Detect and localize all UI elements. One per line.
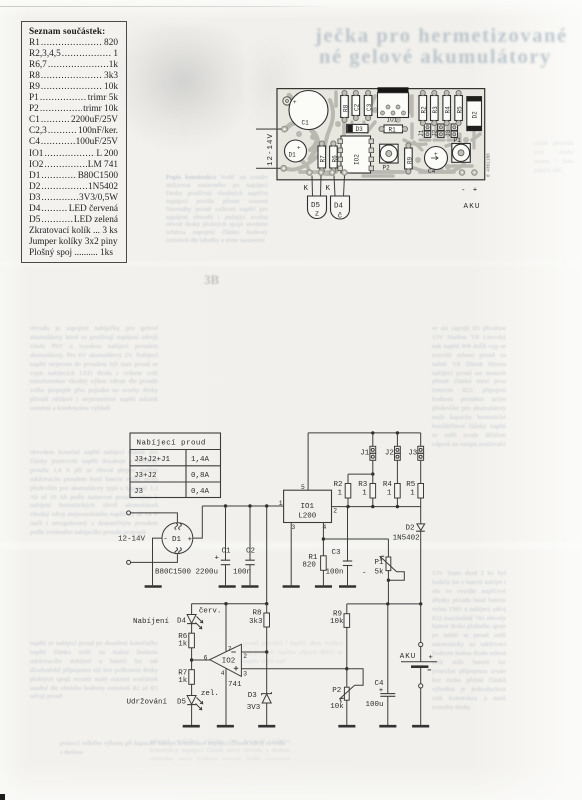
- PCB trimmer P2: [380, 144, 399, 171]
- svg-text:7: 7: [228, 646, 232, 653]
- PCB copper traces: [284, 92, 480, 176]
- svg-text:3: 3: [292, 524, 296, 531]
- svg-text:C1: C1: [222, 547, 232, 555]
- ground (C3): [339, 585, 356, 588]
- svg-text:100n: 100n: [326, 568, 344, 576]
- PCB bridge D1: [285, 140, 307, 162]
- svg-text:J3: J3: [408, 449, 418, 457]
- battery AKU: [400, 604, 437, 725]
- bridge rectifier D1 B80C1500: [155, 523, 218, 577]
- svg-text:10k: 10k: [330, 703, 344, 711]
- jumper top rail: [308, 431, 421, 434]
- svg-text:C3: C3: [332, 549, 342, 557]
- node pin6 junction: [190, 658, 210, 661]
- svg-text:0,4A: 0,4A: [191, 488, 210, 496]
- svg-text:D5: D5: [177, 699, 187, 707]
- PCB bottom pad row: [307, 170, 478, 176]
- svg-text:0,8A: 0,8A: [191, 472, 210, 480]
- svg-text:3k3: 3k3: [249, 618, 263, 626]
- svg-text:R3: R3: [432, 106, 439, 114]
- svg-text:AKU: AKU: [400, 653, 417, 661]
- op-amp IO2 741: [204, 644, 248, 689]
- PCB resistor R3: [431, 90, 440, 125]
- svg-text:Nabíjení: Nabíjení: [133, 618, 170, 626]
- wire op-amp pin7 supply: [225, 604, 227, 652]
- resistor R6 1k: [178, 633, 194, 670]
- svg-text:J3: J3: [134, 488, 144, 496]
- svg-text:J1: J1: [418, 129, 425, 137]
- LED D5 zelena (Udrzovani): [177, 690, 219, 725]
- PCB capacitor C1: [289, 91, 328, 130]
- svg-text:+: +: [293, 99, 297, 106]
- bleed-through heading from reverse page: [315, 26, 582, 68]
- wire D1 minus to ground: [153, 538, 163, 585]
- svg-text:L200: L200: [298, 513, 317, 521]
- svg-text:0 43011B8: 0 43011B8: [487, 153, 492, 177]
- svg-text:D2: D2: [472, 111, 479, 119]
- svg-text:R2: R2: [334, 481, 343, 489]
- node IO1 pin4 junction: [322, 523, 389, 556]
- wire op-amp pin2 to R8/D3 node: [241, 650, 268, 653]
- wire IO1 pin5 up to jumper rail: [307, 433, 309, 490]
- svg-text:+: +: [215, 554, 220, 562]
- svg-text:IO1: IO1: [387, 117, 398, 124]
- svg-text:+: +: [188, 536, 193, 544]
- svg-text:1: 1: [279, 500, 283, 507]
- battery rail (right, AKU net): [347, 602, 423, 605]
- svg-text:K: K: [326, 185, 331, 193]
- svg-text:+: +: [379, 687, 384, 695]
- resistor R8 3k3: [249, 604, 270, 652]
- svg-text:6: 6: [204, 654, 208, 661]
- supply rail of lower section (input net): [192, 602, 269, 605]
- svg-text:1: 1: [362, 489, 367, 497]
- ground (IO1 pin3): [283, 585, 300, 588]
- svg-text:P2: P2: [332, 687, 341, 695]
- capacitor C3 100n: [326, 507, 353, 586]
- PCB jumper J2: [431, 124, 444, 137]
- svg-text:1k: 1k: [178, 677, 188, 685]
- svg-text:4: 4: [221, 670, 225, 677]
- svg-text:č: č: [338, 213, 343, 221]
- svg-text:K: K: [304, 185, 309, 193]
- ground (D5 chain): [183, 725, 200, 728]
- svg-text:1: 1: [410, 489, 415, 497]
- svg-text:+: +: [473, 187, 478, 195]
- wire from input rail down to lower section (R8 / op-amp supply): [266, 506, 268, 604]
- svg-text:R4: R4: [445, 106, 452, 114]
- input terminal + (12-14V): [127, 511, 178, 523]
- svg-text:1: 1: [387, 489, 392, 497]
- capacitor C1 2200u: [215, 506, 232, 585]
- svg-text:R4: R4: [383, 481, 393, 489]
- svg-text:z: z: [315, 211, 320, 219]
- regulator IO1 L200: [279, 484, 338, 531]
- 12-14V input wires to PCB: [256, 126, 288, 171]
- PCB resistor R7: [318, 141, 327, 173]
- LED D4 cervena (Nabijeni): [177, 604, 221, 634]
- ground (op-amp pin4): [217, 725, 234, 728]
- IO1 pin2 output rail: [332, 505, 421, 508]
- svg-text:R7: R7: [320, 155, 327, 163]
- trimmer P1 5k: [363, 539, 404, 604]
- PCB resistor R9: [405, 143, 414, 174]
- svg-text:R5: R5: [406, 481, 416, 489]
- svg-text:Nabíjecí proud: Nabíjecí proud: [137, 440, 206, 448]
- svg-text:1,4A: 1,4A: [191, 456, 210, 464]
- svg-text:R3: R3: [358, 481, 368, 489]
- PCB jumper J3: [445, 124, 458, 137]
- svg-text:J3+J2: J3+J2: [134, 472, 157, 480]
- PCB resistor R1: [379, 125, 408, 134]
- svg-text:P1: P1: [375, 559, 385, 567]
- svg-text:12-14V: 12-14V: [267, 133, 275, 166]
- svg-text:+: +: [428, 654, 433, 662]
- svg-text:12-14V: 12-14V: [118, 536, 146, 544]
- svg-text:P1: P1: [454, 137, 462, 144]
- svg-text:J2: J2: [385, 449, 394, 457]
- PCB trimmer P1: [452, 137, 471, 162]
- svg-text:+: +: [297, 145, 301, 152]
- node R9/P2/pin3 junction: [345, 667, 363, 685]
- svg-text:1: 1: [338, 489, 343, 497]
- svg-text:R2: R2: [421, 106, 428, 114]
- svg-text:C2: C2: [354, 103, 361, 111]
- jumper J3: [408, 433, 423, 484]
- svg-text:J2: J2: [431, 129, 438, 137]
- svg-text:-: -: [461, 187, 466, 195]
- PCB capacitor C3: [364, 90, 373, 120]
- input rail to IO1 pin1: [202, 504, 283, 507]
- input terminal - (12-14V): [127, 553, 178, 564]
- PCB capacitor C2: [352, 90, 361, 120]
- svg-text:D4: D4: [177, 618, 187, 626]
- svg-text:D4: D4: [334, 203, 344, 211]
- resistor R7 1k: [178, 670, 194, 696]
- svg-text:1N5402: 1N5402: [393, 534, 420, 542]
- svg-text:B80C1500 2200u: B80C1500 2200u: [155, 568, 218, 576]
- wire D1 plus up to input rail: [193, 506, 203, 538]
- svg-text:IO2: IO2: [222, 657, 236, 665]
- svg-text:R8: R8: [342, 104, 349, 112]
- svg-text:J3+J2+J1: J3+J2+J1: [134, 456, 171, 464]
- svg-text:R9: R9: [406, 156, 413, 164]
- node J1 bottom junction: [348, 472, 374, 475]
- PCB regulator IO1 with heatsink: [378, 87, 409, 123]
- ground (R1): [315, 585, 332, 588]
- ground (C4): [379, 725, 396, 728]
- svg-text:D3: D3: [248, 692, 258, 700]
- svg-text:820: 820: [302, 562, 316, 570]
- svg-text:R5: R5: [457, 106, 464, 114]
- PCB diode D3: [347, 124, 368, 133]
- ground (C1): [219, 585, 236, 588]
- PCB resistor R6: [330, 141, 339, 173]
- parts list box: [21, 21, 127, 263]
- PCB resistor R4: [443, 90, 452, 125]
- svg-text:R1: R1: [389, 127, 397, 134]
- svg-text:C1: C1: [302, 120, 310, 127]
- svg-text:P2: P2: [383, 164, 391, 171]
- trimmer P2 10k: [330, 685, 354, 725]
- table of charging currents (Nabijeci proud): [130, 433, 221, 498]
- svg-text:2: 2: [333, 507, 337, 514]
- svg-text:10k: 10k: [330, 618, 344, 626]
- svg-text:C2: C2: [246, 547, 255, 555]
- ground (C2): [241, 585, 258, 588]
- svg-text:5k: 5k: [375, 569, 385, 577]
- svg-text:IO2: IO2: [354, 154, 361, 165]
- svg-text:741: 741: [228, 681, 242, 689]
- svg-text:100n: 100n: [233, 568, 251, 576]
- wire op-amp pin4 to ground: [225, 668, 227, 725]
- svg-text:D1: D1: [289, 152, 297, 159]
- PCB capacitor C4: [425, 147, 448, 175]
- svg-text:J1: J1: [360, 449, 370, 457]
- svg-text:J3: J3: [445, 129, 452, 137]
- ground (AKU): [412, 725, 429, 728]
- capacitor C2 100n: [233, 506, 255, 585]
- svg-text:R6: R6: [331, 155, 338, 163]
- jumper J2: [385, 433, 400, 484]
- svg-text:3: 3: [243, 671, 247, 678]
- LED D5 below board (z = green): [308, 176, 327, 219]
- svg-text:100u: 100u: [366, 701, 384, 709]
- svg-text:červ.: červ.: [199, 607, 222, 615]
- svg-text:R1: R1: [308, 554, 318, 562]
- zener D3 3V3: [247, 652, 272, 725]
- svg-text:Udržování: Udržování: [127, 699, 168, 707]
- svg-text:R8: R8: [253, 610, 262, 618]
- svg-text:D5: D5: [311, 202, 321, 210]
- LED D4 below board (c = red): [331, 176, 350, 221]
- resistor R5 value 1: [406, 481, 423, 507]
- svg-text:C3: C3: [366, 103, 373, 111]
- resistor R4 value 1: [383, 481, 400, 507]
- wire IO1 pin3 to ground: [290, 523, 292, 586]
- svg-text:D3: D3: [356, 126, 364, 133]
- ground (D3): [258, 725, 275, 728]
- wire op-amp pin3 to divider node: [241, 668, 346, 670]
- svg-text:3V3: 3V3: [247, 704, 261, 712]
- svg-text:AKU: AKU: [464, 203, 481, 211]
- resistor R3 value 1: [358, 474, 375, 507]
- resistor R1 820: [302, 554, 326, 586]
- svg-text:D2: D2: [406, 525, 415, 533]
- svg-text:5: 5: [301, 484, 305, 491]
- svg-text:C4: C4: [428, 168, 436, 175]
- PCB board outline: [277, 89, 485, 180]
- diode D2 1N5402: [393, 507, 425, 604]
- bleed columns from reverse page: [30, 325, 158, 439]
- svg-text:-: -: [163, 536, 168, 544]
- PCB op-amp IO2: [338, 136, 374, 173]
- PCB resistor R2: [419, 90, 428, 125]
- svg-text:1k: 1k: [178, 641, 188, 649]
- svg-text:2: 2: [243, 653, 247, 660]
- ground (P2): [338, 725, 355, 728]
- PCB jumper J1: [418, 124, 431, 137]
- svg-text:IO1: IO1: [301, 503, 315, 511]
- jumper J1: [360, 433, 375, 474]
- PCB diode D2: [467, 97, 482, 131]
- svg-text:D1: D1: [172, 536, 182, 544]
- PCB resistor R5: [455, 90, 464, 125]
- PCB resistor R8: [341, 90, 350, 122]
- ground (D1): [145, 585, 162, 588]
- resistor R9 10k: [330, 604, 350, 687]
- svg-text:zel.: zel.: [201, 690, 219, 698]
- capacitor C4 100u: [366, 604, 396, 725]
- AKU terminal labels below board: [461, 187, 481, 212]
- resistor R2 value 1: [334, 474, 351, 507]
- PCB fiducial mark: [283, 97, 291, 105]
